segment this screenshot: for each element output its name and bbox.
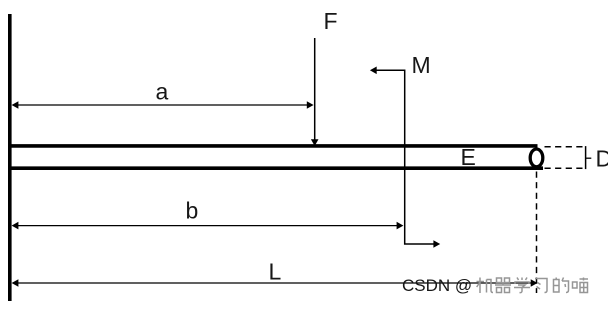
svg-text:F: F	[324, 8, 338, 34]
moment M right arrowhead	[433, 240, 440, 248]
watermark CJK glyphs (hand drawn)	[477, 278, 589, 294]
喵	[573, 278, 589, 293]
习	[535, 279, 547, 293]
beam bottom edge	[8, 166, 543, 170]
dimension a line	[17, 104, 310, 106]
diameter D top dashed extension line	[545, 146, 586, 148]
svg-text:CSDN @: CSDN @	[402, 276, 472, 295]
svg-text:M: M	[412, 52, 431, 78]
器	[495, 278, 511, 293]
dimension L line	[17, 282, 533, 284]
moment M top arrow line	[376, 70, 436, 244]
wall (fixed support)	[8, 14, 12, 301]
svg-text:L: L	[269, 258, 282, 284]
moment M left arrowhead	[370, 67, 377, 75]
dimension b right arrowhead	[397, 222, 404, 230]
dashed projection line from beam end	[536, 172, 538, 294]
的	[554, 278, 569, 293]
svg-text:a: a	[156, 79, 169, 105]
diameter D bracket vertical line	[585, 146, 587, 169]
dimension L right arrowhead	[531, 279, 538, 287]
dimension b left arrowhead	[12, 222, 19, 230]
学	[514, 278, 530, 293]
dimension a left arrowhead	[12, 101, 19, 109]
svg-text:D: D	[596, 145, 608, 171]
dimension b line	[17, 225, 399, 227]
svg-text:b: b	[186, 198, 199, 224]
beam end cap ellipse	[530, 149, 543, 167]
svg-text:E: E	[461, 144, 476, 170]
beam top edge	[8, 144, 538, 148]
diameter D bracket tick	[586, 157, 592, 159]
force F arrowhead	[311, 139, 319, 146]
dimension L left arrowhead	[12, 279, 19, 287]
diameter D bottom dashed extension line	[545, 167, 586, 169]
force F arrow line	[314, 38, 316, 140]
dimension a right arrowhead	[307, 101, 314, 109]
机	[477, 278, 494, 294]
